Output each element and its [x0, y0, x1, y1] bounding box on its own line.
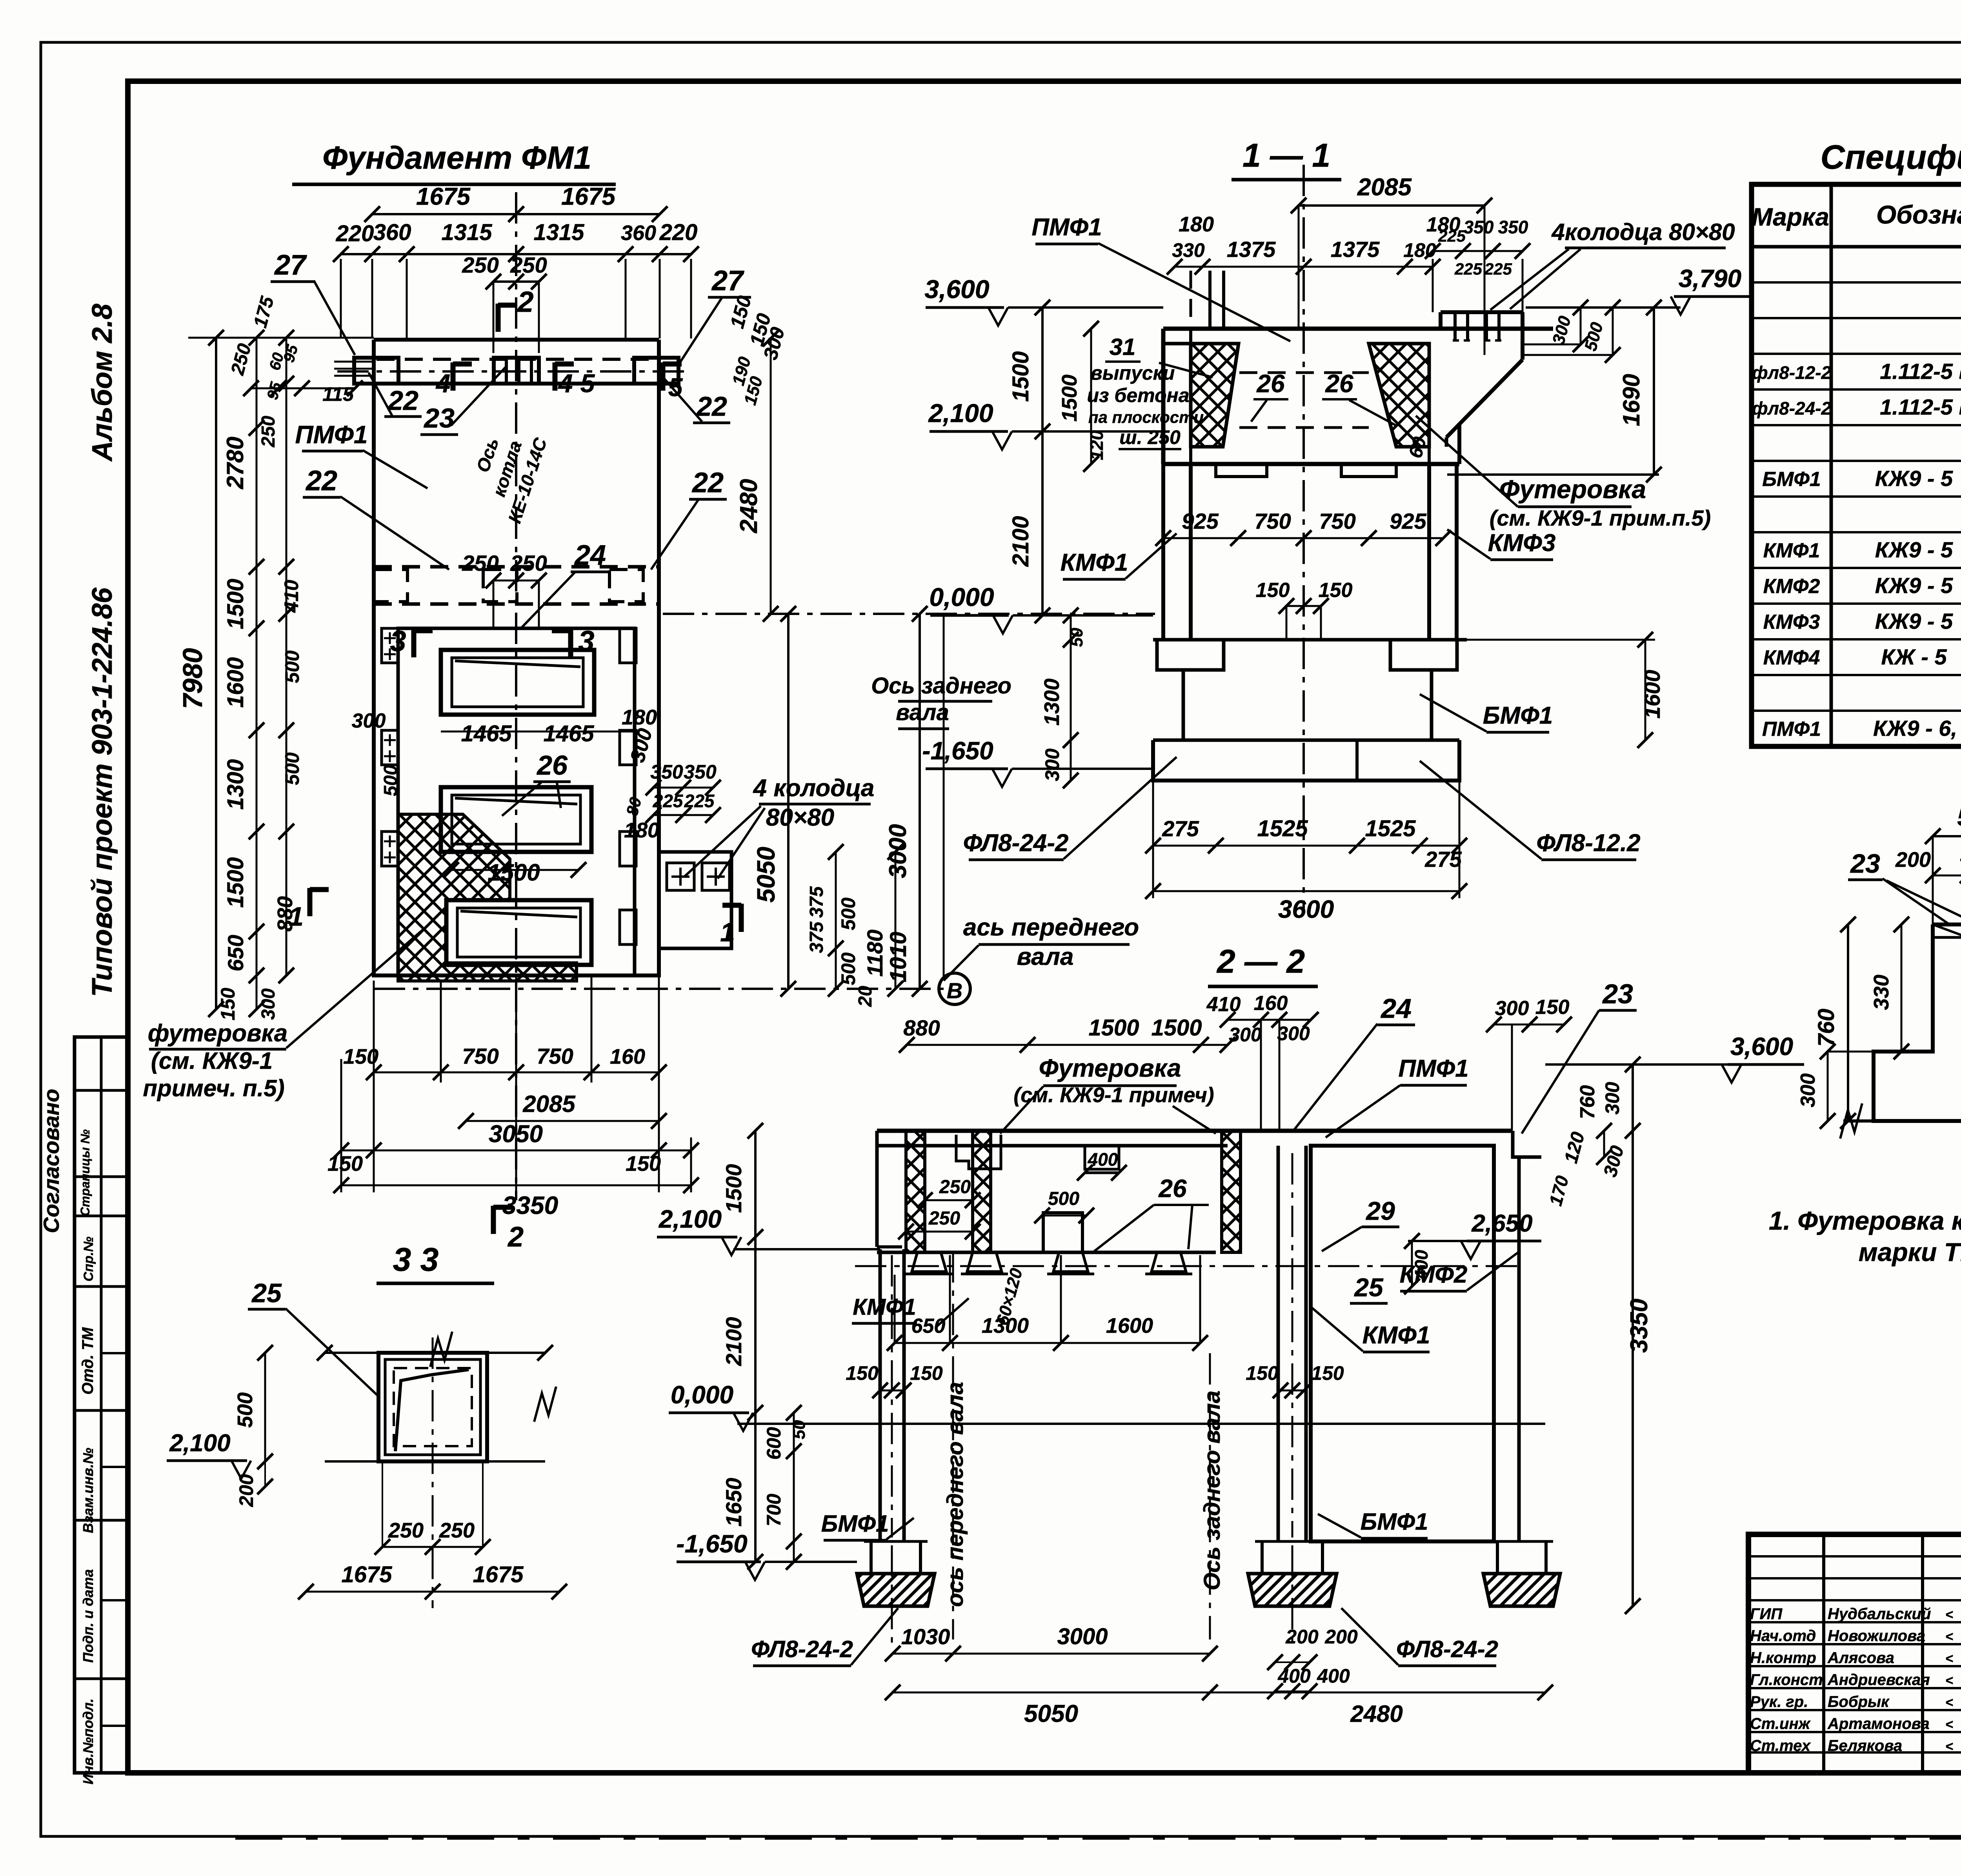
- svg-text:из бетона: из бетона: [1087, 384, 1189, 406]
- 2-2: stepped block between walls: [956, 1135, 1001, 1169]
- 1-1: ось заднего вала line: [943, 614, 945, 981]
- svg-text:26: 26: [1158, 1174, 1187, 1203]
- svg-text:ш. 250: ш. 250: [1119, 426, 1181, 448]
- svg-text:27: 27: [711, 265, 744, 297]
- 1-1: columns: [1161, 464, 1165, 640]
- 1-1: right extension with slope: [1439, 312, 1443, 329]
- svg-text:2,100: 2,100: [928, 398, 993, 428]
- svg-text:КМФ3: КМФ3: [1488, 530, 1556, 557]
- svg-text:500: 500: [233, 1392, 257, 1428]
- 2-2: right big column KMF2: [1311, 1146, 1494, 1541]
- svg-text:80×80: 80×80: [766, 804, 834, 831]
- svg-text:1500: 1500: [488, 859, 540, 886]
- svg-text:330: 330: [1172, 239, 1205, 261]
- svg-text:650: 650: [911, 1315, 946, 1337]
- svg-text:2480: 2480: [1350, 1701, 1403, 1727]
- 2-2: right edge column: [1517, 1157, 1521, 1541]
- svg-text:24: 24: [1380, 993, 1412, 1024]
- svg-text:1500: 1500: [1151, 1015, 1202, 1041]
- plan: dims 350 350 / 225 225: [653, 787, 713, 789]
- svg-text:925: 925: [1182, 509, 1219, 533]
- svg-text:22: 22: [387, 385, 418, 416]
- svg-text:5050: 5050: [1024, 1700, 1078, 1727]
- svg-text:1600: 1600: [1106, 1314, 1153, 1337]
- svg-text:2,100: 2,100: [659, 1205, 722, 1233]
- svg-text:2100: 2100: [1008, 516, 1033, 567]
- 4-4 profile: [1874, 924, 1961, 1121]
- svg-text:1500: 1500: [1058, 375, 1081, 422]
- svg-text:1300: 1300: [223, 759, 248, 810]
- svg-text:2: 2: [517, 286, 533, 318]
- bottom dashed line: [235, 1837, 1961, 1840]
- svg-text:200: 200: [1895, 848, 1931, 872]
- svg-text:160: 160: [610, 1045, 645, 1068]
- svg-text:выпуски: выпуски: [1091, 362, 1175, 384]
- plan: boiler opening 2: [441, 787, 591, 852]
- svg-text:750: 750: [537, 1044, 573, 1068]
- svg-text:250: 250: [439, 1519, 475, 1542]
- svg-text:ась переднего: ась переднего: [963, 914, 1139, 941]
- svg-text:26: 26: [536, 750, 568, 781]
- svg-text:3600: 3600: [1278, 895, 1334, 923]
- plan: right side vertical dims: [787, 614, 789, 989]
- svg-text:-1,650: -1,650: [922, 737, 993, 765]
- svg-text:500: 500: [1957, 804, 1961, 831]
- svg-text:футеровка: футеровка: [148, 1020, 287, 1047]
- svg-text:КМФ4: КМФ4: [1763, 646, 1820, 669]
- svg-text:5: 5: [580, 369, 595, 398]
- svg-text:1: 1: [720, 917, 735, 947]
- svg-text:КМФ1: КМФ1: [1763, 539, 1820, 562]
- svg-text:350: 350: [1464, 217, 1494, 237]
- 1-1: beam body: [1163, 462, 1459, 466]
- svg-text:200: 200: [1285, 1626, 1319, 1648]
- svg-text:Типовой проект 903-1-224.86: Типовой проект 903-1-224.86: [87, 587, 118, 997]
- svg-text:180: 180: [1179, 213, 1214, 236]
- svg-text:200: 200: [235, 1474, 257, 1507]
- svg-text:Футеровка: Футеровка: [1039, 1054, 1181, 1082]
- svg-text:26: 26: [1256, 369, 1285, 398]
- svg-text:Страницы №: Страницы №: [78, 1129, 92, 1216]
- svg-text:Спр.№: Спр.№: [81, 1237, 96, 1282]
- svg-text:350: 350: [650, 761, 683, 783]
- 1-1: right futerovka hatch: [1369, 344, 1429, 447]
- svg-text:1525: 1525: [1257, 816, 1308, 841]
- svg-text:КМФ1: КМФ1: [1363, 1322, 1430, 1349]
- svg-text:<: <: [1945, 1607, 1953, 1622]
- svg-text:150: 150: [1311, 1362, 1344, 1384]
- 1-1: center axis: [1302, 165, 1305, 910]
- svg-text:23: 23: [423, 403, 455, 433]
- svg-text:250: 250: [258, 416, 279, 448]
- svg-text:1315: 1315: [441, 220, 492, 245]
- svg-text:500: 500: [281, 752, 303, 785]
- svg-text:<: <: [1945, 1651, 1953, 1666]
- svg-text:1. Футеровка катла разработан: 1. Футеровка катла разработана в чертежа…: [1769, 1206, 1961, 1235]
- svg-text:300: 300: [1797, 1074, 1819, 1108]
- 2-2: level lines: [733, 1248, 880, 1250]
- svg-text:Согласовано: Согласовано: [39, 1089, 64, 1233]
- 2-2: left vertical dims: [754, 1131, 757, 1562]
- plan: left end witness lines: [334, 361, 375, 363]
- plan: boiler opening 3: [446, 900, 591, 965]
- svg-text:400: 400: [1317, 1665, 1350, 1687]
- svg-text:250: 250: [939, 1177, 971, 1197]
- svg-text:500: 500: [837, 952, 859, 985]
- svg-text:КМФ2: КМФ2: [1763, 575, 1820, 598]
- svg-text:ПМФ1: ПМФ1: [1398, 1055, 1468, 1082]
- svg-text:925: 925: [1390, 509, 1426, 533]
- plan: dim 250 250 mid: [493, 580, 539, 582]
- svg-text:Инв.№подл.: Инв.№подл.: [80, 1698, 96, 1784]
- svg-text:1375: 1375: [1331, 237, 1380, 262]
- svg-text:1500: 1500: [223, 857, 248, 908]
- svg-text:фл8-12-2: фл8-12-2: [1752, 362, 1832, 383]
- svg-text:марки ТМ.: марки ТМ.: [1859, 1237, 1961, 1266]
- svg-text:1: 1: [289, 902, 304, 932]
- svg-text:Артамонова: Артамонова: [1827, 1715, 1930, 1732]
- svg-text:150: 150: [1535, 996, 1570, 1019]
- svg-text:КЖ9 - 5: КЖ9 - 5: [1875, 609, 1953, 633]
- 2-2: left end edge: [875, 1131, 879, 1247]
- svg-text:120: 120: [1086, 430, 1107, 460]
- svg-text:180: 180: [1403, 239, 1436, 261]
- svg-text:па плоскости: па плоскости: [1088, 408, 1204, 426]
- svg-text:2: 2: [507, 1221, 524, 1253]
- svg-text:2 — 2: 2 — 2: [1216, 943, 1305, 980]
- svg-text:2480: 2480: [735, 479, 762, 533]
- svg-text:750: 750: [462, 1044, 498, 1068]
- svg-text:ПМФ1: ПМФ1: [1762, 718, 1821, 741]
- svg-text:7980: 7980: [177, 648, 208, 709]
- 2-2: top right dims 300 150: [1494, 1024, 1564, 1026]
- svg-text:300: 300: [1277, 1023, 1310, 1044]
- svg-text:БМФ1: БМФ1: [1361, 1508, 1428, 1535]
- svg-text:ГИП: ГИП: [1750, 1605, 1783, 1623]
- svg-text:29: 29: [1365, 1196, 1395, 1225]
- svg-text:225: 225: [1484, 260, 1512, 278]
- svg-text:22: 22: [691, 467, 724, 499]
- svg-text:300: 300: [258, 988, 279, 1020]
- 4-4 dims: [1933, 835, 1961, 837]
- svg-text:БМФ1: БМФ1: [1483, 702, 1553, 729]
- svg-text:500: 500: [281, 650, 303, 683]
- svg-text:1 — 1: 1 — 1: [1242, 137, 1330, 174]
- svg-text:Отд. ТМ: Отд. ТМ: [79, 1327, 96, 1395]
- svg-text:КМФ3: КМФ3: [1763, 611, 1820, 633]
- svg-text:-1,650: -1,650: [676, 1530, 747, 1558]
- svg-text:2100: 2100: [721, 1317, 746, 1367]
- 2-2: top slab: [877, 1129, 1513, 1133]
- svg-text:3,600: 3,600: [1730, 1032, 1793, 1061]
- svg-text:1180: 1180: [862, 930, 887, 977]
- 3-3 square: [378, 1353, 487, 1461]
- svg-text:Ст.инж: Ст.инж: [1750, 1715, 1811, 1732]
- svg-text:Марка: Марка: [1752, 203, 1829, 231]
- svg-text:150: 150: [910, 1362, 943, 1384]
- svg-text:360: 360: [621, 221, 656, 245]
- plan: left edge small squares: [382, 628, 398, 663]
- 2-2: middle pedestal: [1043, 1213, 1082, 1252]
- svg-text:1500: 1500: [1088, 1015, 1139, 1041]
- plan: futerovka cross-hatch region: [398, 814, 577, 981]
- svg-text:Ось заднего вала: Ось заднего вала: [1199, 1390, 1225, 1590]
- plan: band column squares: [354, 358, 398, 384]
- svg-text:150: 150: [1319, 579, 1353, 602]
- svg-text:760: 760: [1576, 1085, 1599, 1119]
- svg-text:Алясова: Алясова: [1827, 1649, 1894, 1667]
- svg-text:КЖ9 - 5: КЖ9 - 5: [1875, 466, 1953, 491]
- plan: top dimension chain 1675+1675: [372, 213, 660, 215]
- svg-text:<: <: [1945, 1739, 1953, 1754]
- svg-text:3000: 3000: [1057, 1624, 1108, 1649]
- svg-text:1315: 1315: [533, 220, 584, 245]
- plan: top beam band: [374, 338, 659, 342]
- svg-text:50: 50: [789, 1420, 809, 1439]
- svg-text:375: 375: [806, 886, 827, 918]
- 2-2: dims 150 150 pairs: [880, 1390, 904, 1392]
- svg-text:1500: 1500: [1008, 351, 1033, 402]
- 1-1: top dims: [1299, 204, 1484, 207]
- 2-2: left column: [879, 1249, 882, 1541]
- svg-text:410: 410: [280, 580, 302, 613]
- svg-text:КЖ9 - 5: КЖ9 - 5: [1875, 573, 1953, 598]
- svg-text:3,790: 3,790: [1679, 264, 1741, 293]
- 1-1: right vertical dims: [1653, 308, 1655, 475]
- svg-text:1675: 1675: [416, 183, 471, 210]
- 3-3 axes: [432, 1337, 434, 1608]
- svg-text:3 3: 3 3: [393, 1241, 439, 1278]
- title block outer: [1748, 1534, 1961, 1773]
- svg-text:350: 350: [684, 761, 717, 783]
- svg-text:760: 760: [1814, 1009, 1839, 1047]
- svg-text:200: 200: [1324, 1626, 1358, 1648]
- svg-text:1675: 1675: [473, 1562, 524, 1587]
- svg-text:1300: 1300: [1040, 679, 1064, 726]
- svg-text:Ст.тех: Ст.тех: [1750, 1737, 1811, 1754]
- svg-text:275: 275: [1424, 847, 1462, 872]
- 1-1: foundation steps: [1153, 638, 1467, 642]
- 2-2: mid dims 650 1300 1600: [895, 1342, 1200, 1344]
- svg-text:410: 410: [1206, 993, 1241, 1016]
- plan: boiler opening 1: [441, 650, 594, 715]
- plan: right edge small squares: [620, 628, 636, 663]
- svg-text:вала: вала: [896, 700, 949, 725]
- svg-text:24: 24: [574, 540, 606, 571]
- svg-text:КЖ - 5: КЖ - 5: [1881, 644, 1947, 669]
- 2-2: left hatched walls: [906, 1131, 925, 1252]
- svg-text:Обозначение: Обозначение: [1876, 200, 1961, 229]
- svg-text:<: <: [1945, 1695, 1953, 1710]
- svg-text:300: 300: [352, 710, 386, 732]
- svg-text:1010: 1010: [886, 932, 911, 982]
- svg-text:БМФ1: БМФ1: [821, 1510, 889, 1537]
- title block signature table: [1822, 1534, 1825, 1773]
- 2-2: soffit line: [877, 1251, 1216, 1254]
- 2-2: axis dash-dot verticals: [891, 1545, 893, 1643]
- 2-2: base feet: [912, 1252, 946, 1272]
- plan: lower block outline: [374, 614, 659, 975]
- svg-text:150: 150: [626, 1152, 661, 1175]
- svg-text:Нач.отд: Нач.отд: [1750, 1627, 1816, 1645]
- plan: right protrusion 4 wells: [659, 852, 731, 948]
- 3-3 top/bottom long lines with breaks: [325, 1352, 545, 1354]
- svg-text:Взам.инв.№: Взам.инв.№: [80, 1448, 96, 1533]
- svg-text:Ось заднего: Ось заднего: [871, 673, 1011, 699]
- svg-text:1500: 1500: [721, 1164, 746, 1213]
- svg-text:1525: 1525: [1365, 816, 1416, 841]
- plan: center axis vertical: [515, 192, 517, 1200]
- svg-text:4: 4: [558, 369, 573, 398]
- plan: section mark 1: [739, 904, 744, 932]
- svg-text:1465: 1465: [543, 721, 594, 746]
- svg-text:23: 23: [1602, 979, 1633, 1009]
- svg-text:1375: 1375: [1227, 237, 1276, 262]
- svg-text:1.112-5 вып.0;1: 1.112-5 вып.0;1: [1880, 395, 1961, 419]
- 2-2: bottom dims: [893, 1653, 1210, 1655]
- svg-text:0,000: 0,000: [671, 1381, 733, 1409]
- svg-text:250: 250: [462, 551, 498, 575]
- svg-text:250: 250: [462, 253, 498, 277]
- svg-text:1600: 1600: [1640, 670, 1664, 719]
- svg-text:Фундамент ФМ1: Фундамент ФМ1: [322, 140, 591, 176]
- svg-text:275: 275: [1162, 816, 1199, 841]
- 1-1: bottom dims: [1153, 845, 1459, 847]
- svg-text:500: 500: [380, 765, 401, 796]
- svg-text:Н.контр: Н.контр: [1750, 1649, 1816, 1667]
- svg-text:180: 180: [624, 819, 659, 842]
- svg-text:ФЛ8-12.2: ФЛ8-12.2: [1536, 830, 1640, 857]
- svg-text:31: 31: [1110, 334, 1136, 360]
- svg-text:360: 360: [373, 220, 411, 245]
- svg-text:150: 150: [217, 988, 239, 1021]
- svg-text:150: 150: [327, 1152, 363, 1175]
- svg-text:150: 150: [1256, 579, 1290, 602]
- 1-1: left futerovka hatch: [1191, 344, 1239, 447]
- svg-text:1650: 1650: [721, 1478, 746, 1527]
- svg-text:2,100: 2,100: [169, 1430, 230, 1457]
- svg-text:В: В: [947, 978, 962, 1003]
- svg-text:Новожилова: Новожилова: [1828, 1627, 1925, 1645]
- svg-text:Нудбальский: Нудбальский: [1828, 1605, 1931, 1623]
- svg-text:20: 20: [855, 986, 876, 1007]
- svg-text:250: 250: [510, 551, 547, 575]
- svg-text:КМФ2: КМФ2: [1400, 1261, 1468, 1288]
- svg-text:880: 880: [903, 1015, 940, 1040]
- svg-text:225: 225: [653, 791, 684, 811]
- svg-text:КМФ1: КМФ1: [1061, 549, 1128, 576]
- svg-text:<: <: [1945, 1717, 1953, 1732]
- svg-text:4 колодца: 4 колодца: [753, 775, 875, 802]
- svg-text:КМФ1: КМФ1: [853, 1294, 916, 1320]
- svg-text:2,650: 2,650: [1471, 1210, 1532, 1237]
- svg-text:50: 50: [1067, 628, 1086, 647]
- svg-text:3,600: 3,600: [924, 275, 989, 304]
- 1-1: 4 wells verticals: [1453, 312, 1457, 340]
- svg-text:225: 225: [1438, 227, 1466, 245]
- 1-1: top plate verticals: [1208, 271, 1212, 329]
- svg-text:1300: 1300: [982, 1314, 1029, 1337]
- svg-text:300: 300: [1601, 1082, 1623, 1115]
- svg-text:300: 300: [1041, 748, 1063, 781]
- 1-1: left vertical dims: [1041, 308, 1044, 615]
- 1-1: bottom slab ФЛ plates: [1153, 740, 1459, 781]
- 1-1: bottom flange of beam: [1189, 447, 1192, 464]
- svg-text:225: 225: [1454, 260, 1483, 278]
- svg-text:КЖ9 - 6, КЖ9 - 7: КЖ9 - 6, КЖ9 - 7: [1873, 716, 1961, 741]
- plan: section mark 2 top: [496, 304, 501, 332]
- plan: section marks 3-3: [411, 629, 417, 657]
- spec table grid: [1752, 184, 1961, 746]
- svg-text:4колодца 80×80: 4колодца 80×80: [1551, 219, 1735, 245]
- 2-2: top dims: [907, 1044, 1228, 1046]
- svg-text:Рук. гр.: Рук. гр.: [1750, 1693, 1808, 1710]
- svg-text:1675: 1675: [341, 1562, 392, 1587]
- svg-text:250: 250: [928, 1208, 960, 1229]
- svg-text:25: 25: [251, 1278, 282, 1308]
- svg-text:(см. КЖ9-1: (см. КЖ9-1: [151, 1048, 273, 1074]
- svg-text:150: 150: [846, 1362, 879, 1384]
- svg-text:БМФ1: БМФ1: [1762, 468, 1821, 491]
- svg-text:500: 500: [1048, 1188, 1079, 1209]
- plan: dim 250 250: [493, 280, 539, 283]
- svg-text:Гл.конст: Гл.конст: [1750, 1671, 1823, 1689]
- svg-text:25: 25: [1353, 1273, 1384, 1302]
- svg-text:22: 22: [696, 391, 727, 422]
- 1-1: top slab: [1163, 327, 1553, 331]
- left margin stamp strip table: [75, 1037, 128, 1773]
- svg-text:(см. КЖ9-1 прим.п.5): (см. КЖ9-1 прим.п.5): [1490, 506, 1711, 530]
- svg-text:1030: 1030: [901, 1624, 950, 1649]
- plan: B circle axis: [939, 973, 970, 1004]
- svg-text:3: 3: [390, 625, 406, 657]
- svg-text:Бобрык: Бобрык: [1828, 1693, 1890, 1710]
- svg-text:250: 250: [388, 1519, 424, 1542]
- plan: horizontal dash-dot axis lines: [663, 613, 1155, 615]
- svg-text:1675: 1675: [561, 183, 616, 210]
- svg-text:1690: 1690: [1618, 374, 1644, 426]
- svg-text:300: 300: [1229, 1024, 1262, 1046]
- svg-text:2085: 2085: [1357, 174, 1412, 201]
- svg-text:вала: вала: [1017, 943, 1074, 970]
- svg-text:Андриевская: Андриевская: [1827, 1671, 1930, 1689]
- svg-text:1500: 1500: [223, 579, 248, 629]
- 1-1: dashed inner lines: [1239, 371, 1369, 374]
- svg-text:500: 500: [837, 897, 859, 930]
- svg-text:650: 650: [223, 935, 248, 971]
- svg-text:ФЛ8-24-2: ФЛ8-24-2: [963, 830, 1069, 857]
- svg-text:600: 600: [763, 1427, 785, 1460]
- svg-text:3: 3: [578, 625, 594, 657]
- svg-text:160: 160: [1254, 992, 1288, 1015]
- svg-text:Футеровка: Футеровка: [1499, 475, 1646, 504]
- svg-text:Белякова: Белякова: [1828, 1737, 1902, 1754]
- svg-text:250: 250: [510, 253, 547, 277]
- svg-text:22: 22: [305, 465, 337, 497]
- svg-text:<: <: [1945, 1673, 1953, 1688]
- svg-text:220: 220: [336, 221, 374, 246]
- svg-text:примеч. п.5): примеч. п.5): [143, 1075, 284, 1101]
- svg-text:ПМФ1: ПМФ1: [295, 420, 368, 449]
- 1-1: mid dims 925 750 750 925: [1163, 537, 1443, 539]
- svg-text:2085: 2085: [522, 1091, 576, 1117]
- svg-text:1600: 1600: [223, 657, 248, 708]
- svg-text:23: 23: [1850, 849, 1880, 879]
- svg-text:Альбом 2.8: Альбом 2.8: [87, 304, 118, 462]
- svg-text:1465: 1465: [461, 721, 512, 746]
- svg-text:225: 225: [684, 791, 715, 811]
- svg-text:26: 26: [1325, 369, 1353, 398]
